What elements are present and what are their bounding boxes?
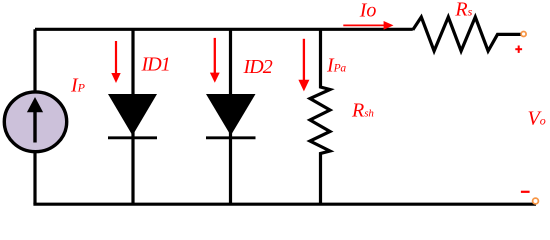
svg-text:ID1: ID1	[141, 53, 170, 75]
svg-text:Vo: Vo	[528, 108, 546, 130]
svg-text:Rsh: Rsh	[351, 99, 374, 121]
svg-text:Rs: Rs	[454, 0, 472, 21]
svg-text:IPa: IPa	[326, 54, 346, 76]
svg-text:Io: Io	[359, 0, 377, 22]
svg-text:IP: IP	[70, 75, 86, 97]
svg-text:ID2: ID2	[243, 56, 273, 78]
